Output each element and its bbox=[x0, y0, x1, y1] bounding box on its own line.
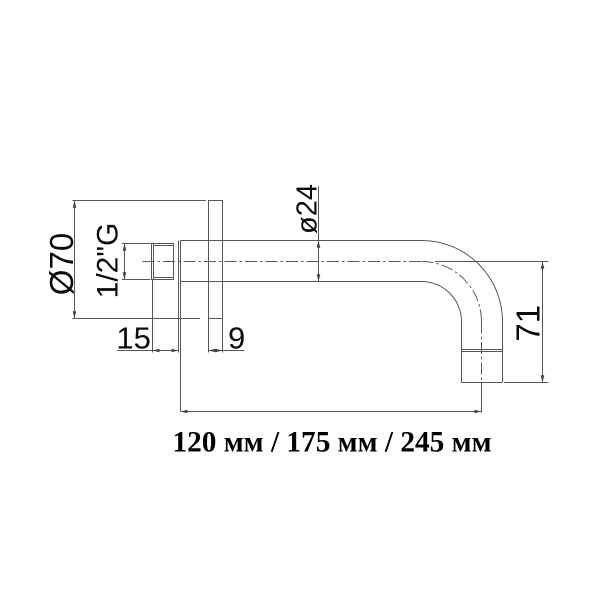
svg-text:Ø70: Ø70 bbox=[43, 233, 80, 295]
svg-text:ø24: ø24 bbox=[291, 184, 323, 234]
svg-text:9: 9 bbox=[228, 320, 245, 355]
svg-text:15: 15 bbox=[116, 320, 150, 355]
svg-text:1/2"G: 1/2"G bbox=[91, 223, 124, 299]
svg-text:71: 71 bbox=[510, 305, 547, 342]
svg-text:120 мм / 175 мм / 245 мм: 120 мм / 175 мм / 245 мм bbox=[172, 426, 491, 458]
